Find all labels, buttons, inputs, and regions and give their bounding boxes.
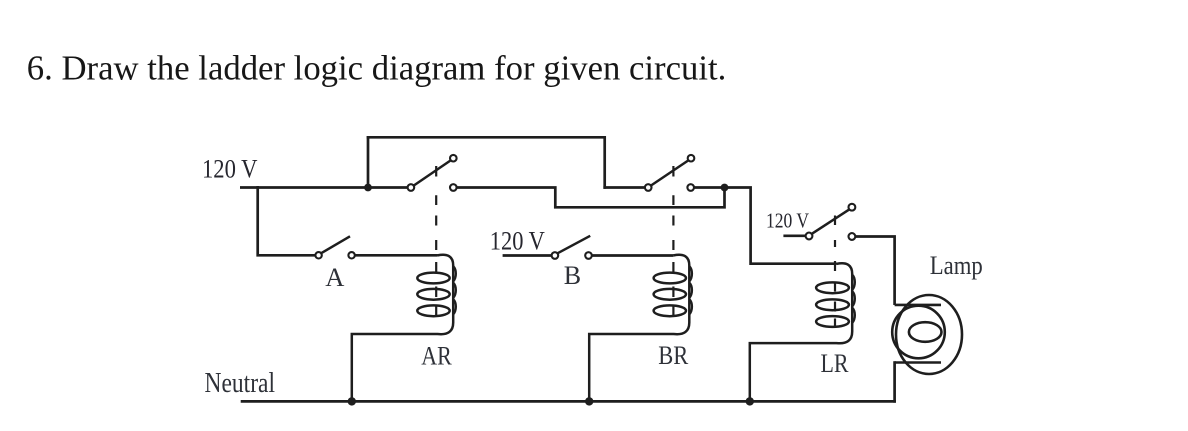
coil BR: [589, 255, 692, 402]
wire 120V rail: [240, 186, 408, 189]
svg-text:Neutral: Neutral: [205, 368, 276, 399]
wire top line: [367, 136, 606, 139]
wire switch B to coil BR: [592, 254, 674, 257]
coil LR: [750, 263, 855, 401]
relay contact LR (NO contact): [806, 204, 856, 240]
svg-text:B: B: [564, 261, 581, 290]
svg-text:120 V: 120 V: [766, 208, 809, 232]
switch A (manual, NO): [315, 236, 354, 258]
relay contact AR (NO contact): [408, 155, 457, 191]
svg-text:120 V: 120 V: [490, 226, 545, 255]
svg-text:6. Draw the ladder logic diagr: 6. Draw the ladder logic diagram for giv…: [27, 49, 727, 88]
lamp L1: [892, 295, 962, 403]
wire switch B feed stub: [503, 254, 552, 257]
wire contact LR output to lamp: [855, 237, 894, 306]
node junction after contact BR: [721, 184, 729, 192]
node junction on rail: [364, 184, 372, 192]
node junction coil LR on neutral: [746, 397, 754, 405]
wire drop to contact BR branch: [603, 136, 606, 189]
svg-text:LR: LR: [821, 348, 849, 378]
wire contact AR output with step: [457, 188, 725, 208]
switch B (manual, NO): [552, 236, 592, 259]
dashed linkage BR contact to coil: [672, 166, 674, 316]
dashed linkage LR contact to coil: [834, 216, 836, 327]
wire neutral line: [241, 400, 896, 403]
wire contact BR output to LR branch: [694, 188, 837, 264]
svg-text:BR: BR: [658, 340, 688, 370]
svg-text:Lamp: Lamp: [930, 251, 983, 280]
svg-text:AR: AR: [421, 341, 452, 371]
wire contact LR feed stub: [783, 234, 805, 237]
coil AR: [352, 255, 456, 402]
node junction coil AR on neutral: [348, 397, 356, 405]
wire into contact BR: [603, 186, 645, 189]
node junction coil BR on neutral: [585, 397, 593, 405]
wire branch down to switch A: [258, 186, 316, 255]
svg-text:120 V: 120 V: [202, 154, 258, 183]
wire riser to top line: [367, 136, 370, 189]
svg-text:A: A: [325, 262, 344, 292]
relay contact BR (NO contact): [645, 155, 694, 191]
dashed linkage AR contact to coil: [435, 166, 437, 316]
wire switch A to coil AR: [355, 254, 438, 257]
